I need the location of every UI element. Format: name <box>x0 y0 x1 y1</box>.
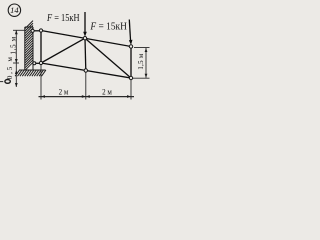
svg-text:1,5 м: 1,5 м <box>10 36 18 54</box>
svg-text:2 м: 2 м <box>59 87 69 97</box>
svg-text:F = 15кН: F = 15кН <box>46 13 79 24</box>
svg-text:2 м: 2 м <box>102 87 112 97</box>
svg-text:F = 15кН: F = 15кН <box>90 22 128 33</box>
svg-text:14: 14 <box>10 5 19 15</box>
svg-text:1,5 м: 1,5 м <box>137 53 145 70</box>
svg-text:0,5 м: 0,5 м <box>6 55 14 79</box>
